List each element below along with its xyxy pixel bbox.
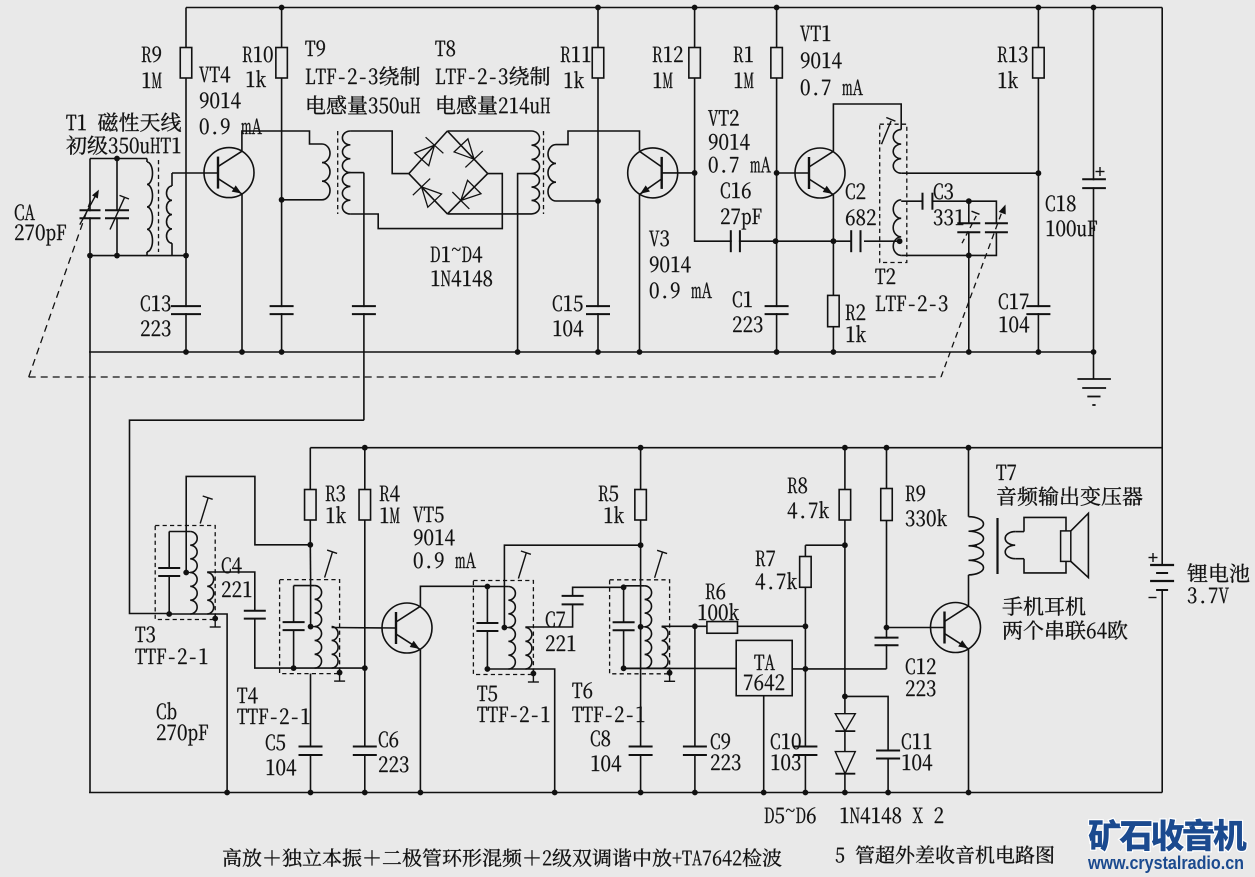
- wire T3 secondary to C4: [207, 572, 255, 611]
- secondary winding: [525, 628, 532, 670]
- node oscillator tank bottom: [966, 253, 972, 259]
- wire T8 secondary top to V3 collector: [556, 131, 640, 151]
- core ground mark: [532, 674, 534, 683]
- wire VT2 collector to T2: [833, 104, 901, 152]
- label R3 1k: [326, 485, 345, 501]
- ground symbol: [1093, 352, 1095, 379]
- resistor R6: [695, 625, 806, 627]
- wire left edge to bottom section: [89, 256, 91, 793]
- capacitor C9: [694, 626, 696, 792]
- label R12 1M: [653, 46, 683, 62]
- capacitor C1: [776, 173, 778, 352]
- label VT4 9014 0.9mA: [199, 66, 230, 82]
- shield box: [473, 581, 533, 675]
- wire VT4 emitter: [241, 194, 243, 352]
- label R9 1M: [142, 46, 161, 62]
- wire ring top edge: [409, 131, 448, 174]
- label T2 LTF-2-3: [875, 268, 895, 284]
- resistor R9 330k: [886, 448, 888, 628]
- wire T3 tank ground: [215, 614, 227, 793]
- node R6/R7 junction: [803, 623, 809, 629]
- label C1 223: [733, 291, 752, 307]
- transformer T1 secondary: [167, 186, 172, 243]
- wire R12 node down to C16: [695, 173, 726, 241]
- dashed gang link to oscillator capacitor: [941, 209, 1003, 378]
- resistor R4: [364, 448, 366, 668]
- node R3 bottom junction: [307, 542, 313, 548]
- label VT5 9014 0.9mA: [413, 507, 443, 523]
- core ground mark: [339, 673, 341, 682]
- transformer T8 primary: [532, 131, 540, 174]
- node R9/C13/T1 junction: [183, 253, 189, 259]
- resistor R5: [640, 448, 642, 546]
- secondary winding: [662, 627, 669, 669]
- bottom wire: [169, 614, 215, 619]
- wire V3 emitter: [639, 194, 641, 352]
- wire T6 secondary to R6: [662, 625, 695, 627]
- label C15 104: [553, 295, 583, 311]
- wire C7 to T6: [573, 587, 624, 596]
- wire bottom ground rail: [89, 792, 1162, 794]
- node R5 bottom junction: [638, 542, 644, 548]
- capacitor C10: [804, 669, 806, 793]
- tank capacitor: [293, 586, 295, 623]
- diode D3: [422, 187, 442, 207]
- label R7 4.7k: [756, 551, 775, 566]
- wire R7 bottom to TA7642 output: [804, 626, 806, 669]
- transformer T9 core: [337, 131, 339, 214]
- node T2 secondary tap: [897, 238, 903, 244]
- transformer T2 tuning arrow: [882, 121, 892, 144]
- node R11/T8/C15 junction: [595, 198, 601, 204]
- wire T1 tank top: [90, 158, 147, 160]
- caption circuit description: [223, 848, 781, 867]
- primary winding: [508, 587, 515, 628]
- capacitor C13: [185, 256, 187, 352]
- wire earphone top lead: [1015, 531, 1024, 533]
- label R8 4.7k: [788, 477, 807, 493]
- label C11 104: [902, 733, 931, 749]
- capacitor C8: [640, 627, 642, 793]
- label T6 TTF-2-1: [572, 682, 592, 698]
- label VT1 9014 0.7mA: [800, 26, 830, 42]
- tap junction: [308, 624, 314, 630]
- diode D6: [844, 731, 846, 752]
- variable capacitor oscillator trimmer section: [969, 201, 997, 223]
- diode D4: [461, 180, 481, 200]
- resistor R3: [309, 448, 311, 545]
- wire T9 secondary top to ring left corner: [350, 131, 408, 174]
- label C3 331: [934, 183, 953, 199]
- transformer T1 primary: [146, 159, 148, 163]
- battery B1 3.7V: [1150, 564, 1174, 566]
- label C8 104: [591, 730, 610, 746]
- tuning slug arrow: [325, 552, 333, 578]
- wire V3 base: [662, 172, 695, 174]
- speaker horn: [1071, 513, 1089, 577]
- wire R3 into T4 tap: [309, 545, 311, 580]
- resistor R7: [804, 545, 806, 626]
- label C2 682: [846, 183, 865, 199]
- tank capacitor: [486, 587, 488, 624]
- capacitor bypass at R10: [281, 200, 283, 352]
- node diode top junction: [842, 694, 848, 700]
- earphone body: [1024, 517, 1066, 573]
- tuning slug arrow: [655, 552, 663, 578]
- wire oscillator tank to ground: [968, 255, 970, 352]
- battery plus sign: [1149, 557, 1158, 559]
- node T5 cap top junction: [485, 584, 491, 590]
- secondary winding: [207, 573, 214, 615]
- capacitor C12: [886, 628, 888, 669]
- label R2 1k: [846, 304, 865, 320]
- wire T9 secondary bottom to ring right corner: [350, 174, 502, 229]
- label C9 223: [711, 733, 730, 749]
- variable capacitor Cb oscillator section: [968, 201, 970, 223]
- bottom wire: [624, 668, 670, 673]
- transformer T7 secondary: [1005, 532, 1015, 559]
- wire VT4 collector: [242, 131, 322, 152]
- wire right edge battery branch: [1161, 8, 1163, 566]
- capacitor C4: [244, 612, 266, 618]
- transformer T7 primary: [968, 448, 970, 517]
- resistor R1: [776, 8, 778, 173]
- node output base junction: [884, 625, 890, 631]
- capacitor C11: [845, 696, 888, 792]
- transformer T2 primary: [893, 130, 901, 174]
- node R8/R7 junction: [842, 542, 848, 548]
- label earphone note: [1003, 597, 1086, 616]
- capacitor C6: [364, 668, 366, 792]
- label R9 330k: [906, 485, 925, 501]
- transformer T8 core: [543, 131, 545, 214]
- node top rail junctions: [279, 5, 285, 11]
- caption circuit title: [836, 845, 1054, 864]
- node oscillator tank top: [966, 198, 972, 204]
- label C13 223: [141, 295, 170, 311]
- label D1-D4 1N4148: [431, 246, 482, 262]
- wire TA7642 output pin: [792, 668, 886, 670]
- label CA 270pF: [15, 204, 35, 220]
- label C4 221: [222, 557, 242, 573]
- IC U1 TA7642: [736, 640, 792, 695]
- capacitor C3: [924, 193, 932, 210]
- wire R7 top to R8: [805, 544, 845, 546]
- wire T1 tank bottom: [90, 255, 186, 257]
- transformer T9 primary: [322, 144, 330, 200]
- node TA7642 output / R7 junction: [803, 666, 809, 672]
- label R6 100k: [706, 583, 725, 599]
- capacitor C5: [310, 674, 312, 793]
- label V3 9014 0.9mA: [649, 230, 669, 246]
- node VT2 emitter / C2 junction: [831, 238, 837, 244]
- node R13/T2 junction: [1036, 170, 1042, 176]
- wire T8 secondary bottom to R11: [556, 200, 598, 202]
- speaker rectangle: [1061, 531, 1071, 562]
- wire ring bottom edge: [409, 174, 448, 214]
- wire VT6 collector: [968, 575, 970, 606]
- core ground mark: [214, 619, 216, 628]
- node R4/T4/C6 junction: [362, 665, 368, 671]
- transistor VT4: [204, 148, 254, 198]
- node R10/T9 junction: [279, 197, 285, 203]
- primary winding: [190, 532, 197, 573]
- wire top supply rail: [186, 7, 1162, 9]
- label C12 223: [906, 658, 936, 674]
- label VT2 9014 0.7mA: [708, 110, 739, 126]
- label T4 TTF-2-1: [237, 687, 257, 703]
- label C16 27pF: [721, 182, 751, 198]
- transistor VT5: [382, 603, 432, 653]
- label T7 audio transformer: [996, 465, 1015, 480]
- label D5-D6 1N4148 X 2: [765, 807, 816, 823]
- bottom wire: [487, 669, 533, 674]
- wire IF supply feed line: [310, 447, 1162, 449]
- wire T2 secondary top: [901, 200, 922, 202]
- wire VT4 base: [172, 172, 219, 174]
- logo crystalradio: [1089, 818, 1247, 851]
- wire T8 primary bottom to ring bottom corner: [447, 213, 531, 215]
- label R4 1M: [380, 485, 400, 501]
- label R10 1k: [243, 46, 273, 62]
- wire T2 secondary bottom: [901, 254, 969, 256]
- wire T5 secondary to C7: [525, 604, 572, 627]
- label T8: [435, 40, 455, 56]
- label C6 223: [379, 731, 398, 747]
- wire R8 to diode chain: [844, 545, 846, 714]
- resistor R13: [1037, 8, 1039, 174]
- wire mixer output to T3: [130, 420, 364, 613]
- resistor R9: [185, 8, 187, 256]
- primary winding: [315, 586, 322, 627]
- tuning slug arrow: [200, 498, 208, 524]
- transformer T1 core: [158, 160, 160, 252]
- label R1 1M: [734, 47, 753, 63]
- wire ring top corner to T8 primary: [447, 130, 531, 132]
- capacitor C16: [726, 240, 776, 242]
- wire earphone bottom lead: [1015, 558, 1024, 560]
- resistor R12: [694, 8, 696, 173]
- core ground mark: [669, 673, 671, 682]
- shield box: [280, 580, 340, 674]
- resistor R11: [597, 8, 599, 202]
- wire VT5 emitter: [419, 650, 421, 793]
- diode D1: [415, 145, 435, 165]
- wire R5 to T5 tap: [504, 545, 640, 626]
- resistor R10: [281, 8, 283, 200]
- shield box: [155, 526, 215, 620]
- label R5 1k: [599, 486, 618, 502]
- svg-text:www.crystalradio.cn: www.crystalradio.cn: [1087, 853, 1244, 873]
- node VT2 base junction: [774, 170, 780, 176]
- label T3 TTF-2-1: [135, 626, 154, 642]
- tap junction: [183, 570, 189, 576]
- label C5 104: [266, 734, 285, 750]
- diode D5: [835, 714, 855, 731]
- node V3 base junction: [692, 170, 698, 176]
- tuning slug arrow: [518, 553, 526, 579]
- transformer T9 secondary: [342, 131, 350, 173]
- capacitor C17: [1037, 173, 1039, 352]
- label C7 221: [546, 611, 565, 627]
- node IF feed junctions: [362, 445, 368, 451]
- label R11 1k: [561, 47, 590, 63]
- node T6 cap top junction: [621, 584, 627, 590]
- label Cb 270pF: [157, 702, 176, 719]
- wire VT5 base: [332, 627, 396, 630]
- label C18 100uF: [1046, 195, 1076, 211]
- wire TA7642 input pin: [624, 667, 737, 669]
- wire T3 tap to R3: [186, 476, 310, 572]
- diode D2: [454, 139, 474, 159]
- bottom wire: [294, 668, 340, 673]
- wire VT5 collector to T5: [420, 586, 487, 607]
- variable capacitor CA section a: [89, 159, 91, 256]
- wire VT6 emitter: [968, 649, 970, 792]
- transformer T7 core: [996, 518, 998, 574]
- label T5 TTF-2-1: [477, 686, 497, 702]
- label C18 plus sign: [1096, 171, 1105, 173]
- label C10 103: [771, 733, 801, 749]
- wire T2 primary bottom to R13: [901, 172, 1038, 174]
- label U1 TA 7642: [754, 655, 775, 670]
- tap junction: [502, 625, 508, 631]
- shield box: [610, 580, 670, 674]
- wire R10 to T9 primary bottom: [282, 199, 322, 201]
- capacitor C15: [597, 201, 599, 352]
- wire T8 primary tap to ground: [518, 174, 532, 352]
- transistor VT2: [795, 148, 845, 198]
- wire C4 to T4 bottom: [255, 619, 294, 669]
- variable capacitor CA section b (trimmer): [116, 159, 118, 211]
- tap junction: [638, 624, 644, 630]
- dashed tuning gang line: [29, 376, 941, 378]
- transformer T2 shield box: [880, 124, 907, 262]
- node R6 left junction: [692, 623, 698, 629]
- wire VT2 emitter: [832, 195, 834, 242]
- wire TA7642 ground pin: [763, 696, 765, 793]
- node C16/R1 junction: [773, 238, 779, 244]
- tank capacitor: [168, 532, 170, 569]
- resistor R2: [832, 241, 834, 352]
- label C17 104: [999, 293, 1028, 309]
- wire T5 bottom to ground: [533, 669, 554, 793]
- wire R5 line into T6 tap: [640, 545, 642, 626]
- label T9: [305, 40, 325, 56]
- wire T4 bottom to R4: [340, 667, 365, 669]
- capacitor IF coupling: [363, 173, 365, 421]
- wire T9 secondary tap: [350, 172, 364, 174]
- transistor V3: [628, 148, 678, 198]
- label R13 1k: [998, 46, 1028, 62]
- battery minus sign: [1149, 597, 1157, 599]
- transformer T8 secondary: [548, 145, 556, 201]
- label battery 3.7V: [1188, 563, 1250, 582]
- capacitor C2: [776, 240, 851, 242]
- capacitor C18 electrolytic: [1093, 8, 1095, 353]
- resistor R8: [844, 448, 846, 546]
- transformer T2 secondary: [893, 200, 901, 256]
- wire top-section ground rail: [89, 351, 1094, 353]
- primary winding: [645, 586, 652, 627]
- dashed gang link to CA: [29, 197, 92, 378]
- tank capacitor: [623, 586, 625, 623]
- label T1 antenna: [66, 113, 181, 132]
- capacitor C7: [562, 597, 584, 604]
- wire VT2 base: [777, 172, 809, 174]
- secondary winding: [332, 627, 339, 669]
- wire VT6 base: [887, 627, 945, 629]
